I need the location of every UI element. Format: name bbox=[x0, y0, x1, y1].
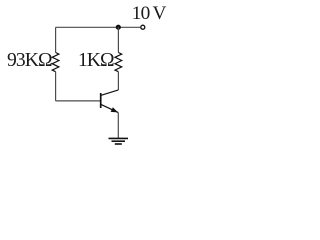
ground symbol bar 3 bbox=[115, 143, 122, 145]
svg-text:93KΩ: 93KΩ bbox=[7, 50, 52, 71]
svg-text:1KΩ: 1KΩ bbox=[78, 50, 114, 71]
resistor 1KΩ zigzag bbox=[115, 53, 122, 72]
wire: left branch vertical below resistor down to base corner bbox=[55, 72, 57, 101]
wire: top rail from left branch to supply terminal bbox=[56, 26, 141, 28]
transistor Q1 base bar bbox=[100, 93, 102, 108]
ground symbol bar 2 bbox=[112, 140, 126, 142]
wire: emitter vertical down to ground bbox=[117, 113, 119, 138]
transistor Q1 collector diagonal bbox=[101, 90, 119, 96]
node: open terminal circle for 10V supply bbox=[141, 25, 145, 29]
svg-text:10 V: 10 V bbox=[132, 3, 167, 24]
wire: collector branch vertical from junction dot to resistor R2 bbox=[117, 27, 119, 52]
wire: collector vertical below resistor to transistor collector bbox=[117, 72, 119, 90]
wire: left branch vertical from top rail to resistor R1 bbox=[55, 27, 57, 52]
resistor 93KΩ zigzag bbox=[52, 53, 59, 72]
wire: base wire horizontal to transistor bbox=[56, 100, 101, 102]
transistor Q1 emitter diagonal bbox=[101, 104, 119, 112]
ground symbol bar 1 bbox=[109, 137, 129, 139]
node: junction dot at top of collector branch bbox=[116, 25, 121, 30]
transistor Q1 emitter arrowhead bbox=[111, 107, 118, 112]
